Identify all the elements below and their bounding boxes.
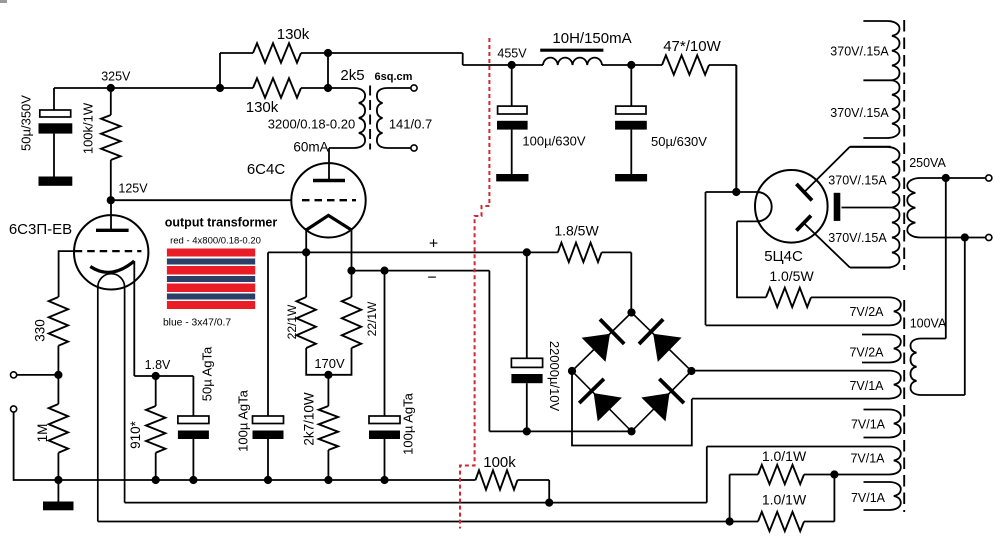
svg-text:7V/2A: 7V/2A [849,305,884,319]
svg-text:22000µ/10V: 22000µ/10V [547,341,562,412]
svg-text:100k/1W: 100k/1W [81,102,96,154]
svg-text:1.8V: 1.8V [145,358,171,372]
svg-text:2k7/10W: 2k7/10W [302,392,317,446]
svg-text:6sq.cm: 6sq.cm [375,71,413,83]
svg-text:10H/150mA: 10H/150mA [552,30,631,47]
svg-text:125V: 125V [118,181,148,195]
svg-text:1.0/5W: 1.0/5W [769,268,814,284]
svg-text:2k5: 2k5 [340,67,364,84]
svg-text:47*/10W: 47*/10W [663,38,721,55]
svg-text:370V/.15A: 370V/.15A [830,106,889,120]
svg-text:100VA: 100VA [910,316,947,330]
svg-text:170V: 170V [314,356,345,371]
svg-text:7V/1A: 7V/1A [851,491,886,505]
svg-text:+: + [429,236,438,253]
svg-text:7V/2A: 7V/2A [849,345,884,359]
svg-text:1.0/1W: 1.0/1W [762,448,807,464]
svg-text:910*: 910* [128,420,143,449]
svg-text:250VA: 250VA [909,156,946,170]
svg-text:1.0/1W: 1.0/1W [762,491,807,507]
svg-text:370V/.15A: 370V/.15A [828,231,887,245]
svg-text:370V/.15A: 370V/.15A [828,173,887,187]
svg-text:130k: 130k [277,26,310,43]
svg-text:130k: 130k [246,99,279,116]
svg-text:50µ AgTa: 50µ AgTa [200,346,215,401]
svg-text:60mA: 60mA [293,140,328,155]
svg-text:7V/1A: 7V/1A [850,451,885,465]
svg-text:100µ AgTa: 100µ AgTa [236,389,251,451]
svg-text:455V: 455V [497,46,527,60]
svg-text:3200/0.18-0.20: 3200/0.18-0.20 [268,117,355,132]
svg-text:7V/1A: 7V/1A [851,418,886,432]
svg-text:100µ AgTa: 100µ AgTa [401,392,416,454]
svg-text:22/1W: 22/1W [285,304,299,339]
svg-text:−: − [427,270,436,287]
svg-text:325V: 325V [101,69,131,83]
svg-text:output transformer: output transformer [165,215,278,229]
svg-text:6С3П-ЕВ: 6С3П-ЕВ [9,221,72,238]
svg-text:141/0.7: 141/0.7 [389,117,432,132]
svg-text:1.8/5W: 1.8/5W [554,222,599,238]
svg-text:330: 330 [33,319,48,342]
svg-text:7V/1A: 7V/1A [849,379,884,393]
svg-text:5Ц4С: 5Ц4С [764,248,803,265]
svg-text:22/1W: 22/1W [365,301,379,336]
svg-text:blue - 3x47/0.7: blue - 3x47/0.7 [163,318,231,329]
svg-text:6C4C: 6C4C [247,161,286,178]
svg-text:100k: 100k [483,454,516,471]
svg-text:100µ/630V: 100µ/630V [522,134,585,149]
svg-text:50µ/350V: 50µ/350V [19,95,34,151]
svg-text:1M: 1M [35,424,50,443]
svg-text:red - 4x800/0.18-0.20: red - 4x800/0.18-0.20 [170,235,261,246]
svg-text:370V/.15A: 370V/.15A [830,44,889,58]
svg-text:50µ/630V: 50µ/630V [651,134,707,149]
